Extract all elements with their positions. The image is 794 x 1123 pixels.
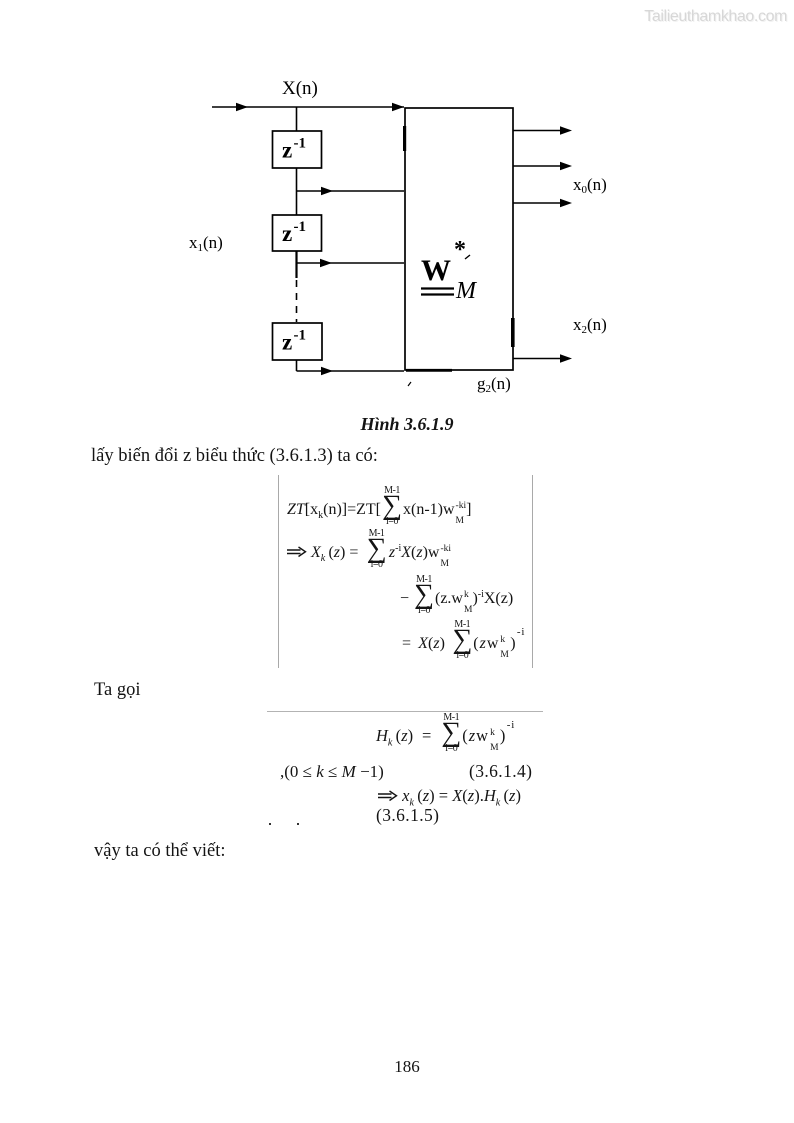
wire: input line X(n) xyxy=(212,106,404,108)
svg-text:z: z xyxy=(282,138,292,163)
svg-text:-1: -1 xyxy=(294,136,307,152)
caption Hinh 3.6.1.9 xyxy=(337,414,477,435)
implies xk(z) xyxy=(377,788,521,808)
svg-text:-1: -1 xyxy=(294,328,307,344)
arrowhead output 1 xyxy=(560,126,572,134)
arrowhead input xyxy=(236,103,248,111)
svg-text:x0(n): x0(n) xyxy=(573,175,607,196)
arrowhead into W block top xyxy=(392,103,404,111)
svg-text:W: W xyxy=(421,254,451,287)
wire: output 1 xyxy=(513,130,562,132)
arrowhead branch 2 xyxy=(320,259,332,267)
wire: below delay2 xyxy=(295,251,297,278)
wire: output 4 xyxy=(513,358,562,360)
delay block Z3 xyxy=(273,323,323,360)
wire: dashed segment xyxy=(296,280,298,322)
delay block Z1 xyxy=(273,131,322,168)
wire: vertical from input to first delay xyxy=(296,107,298,131)
label W*M xyxy=(421,237,478,304)
svg-text:g2(n): g2(n) xyxy=(477,374,511,395)
wire: branch 2 horizontal xyxy=(297,262,405,264)
watermark xyxy=(644,8,787,26)
wire: output 3 xyxy=(513,202,562,204)
svg-text:X(n): X(n) xyxy=(282,78,318,99)
svg-text:z: z xyxy=(282,221,292,246)
stray dots xyxy=(269,823,271,825)
formula line 4 xyxy=(402,620,525,663)
svg-text:-1: -1 xyxy=(294,219,307,235)
diagram figure 3.6.1.9 xyxy=(0,0,794,440)
stray mark xyxy=(408,382,411,386)
delay block Z2 xyxy=(273,215,322,251)
svg-text:*: * xyxy=(454,237,466,263)
formula line 1 xyxy=(287,486,471,529)
formula line 2 xyxy=(286,529,451,572)
Ta goi xyxy=(94,680,141,701)
wire: below delay3 xyxy=(296,360,298,371)
paragraph 2 xyxy=(94,841,226,862)
arrowhead branch 1 xyxy=(321,187,333,195)
constraint and (3.6.1.4) xyxy=(280,762,384,782)
wire: branch 3 horizontal xyxy=(297,370,405,372)
wire: branch 1 horizontal xyxy=(297,190,405,192)
(3.6.1.5) xyxy=(376,805,439,826)
wire: delay1 to delay2 xyxy=(296,168,298,215)
formula Hk xyxy=(376,713,515,756)
svg-text:x2(n): x2(n) xyxy=(573,315,607,336)
block U1 W*M matrix xyxy=(405,108,513,370)
arrowhead output 3 xyxy=(560,199,572,207)
arrowhead output 2 xyxy=(560,162,572,170)
arrowhead output 4 xyxy=(560,354,572,362)
formula block borders xyxy=(278,475,279,668)
formula line 3 xyxy=(400,575,513,618)
paragraph 1 xyxy=(91,446,378,467)
svg-text:M: M xyxy=(455,278,478,304)
page number xyxy=(377,1057,437,1077)
svg-text:x1(n): x1(n) xyxy=(189,233,223,254)
wire: output 2 xyxy=(513,165,562,167)
arrowhead branch 3 xyxy=(321,367,333,375)
svg-text:z: z xyxy=(282,330,292,355)
rule above Hk formula xyxy=(267,711,543,712)
